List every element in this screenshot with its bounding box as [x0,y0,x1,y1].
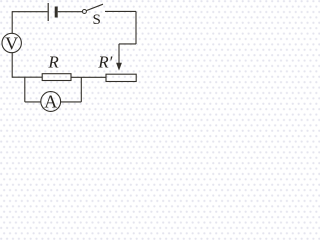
ammeter A: circle [41,92,61,112]
wire: right vertical drop [135,11,137,44]
wire: battery to switch pivot [58,11,82,13]
wire: switch contact to top-right corner [105,10,136,12]
battery cell: long thin plate (left) [47,3,49,21]
wire: top-left horizontal from corner to battery [12,11,47,13]
svg-text:R: R [47,53,59,72]
wire: bottom left to ammeter [25,101,41,103]
voltmeter V: circle [2,33,21,52]
battery cell: short thick plate (right) [55,7,58,18]
switch S: blade (open) [86,4,103,10]
rheostat R' slider arrowhead [116,63,122,71]
svg-text:S: S [93,12,101,28]
wire: resistor R to left junction [12,76,42,78]
svg-text:R′: R′ [97,52,112,71]
svg-text:V: V [5,33,18,53]
wire: voltmeter bottom to middle wire [11,53,13,78]
wire: left junction down to ammeter row [24,77,26,102]
wire: ammeter to right branch [61,101,82,103]
switch S: pivot circle [82,10,86,14]
wire: R' left terminal to resistor R [71,76,106,78]
rheostat R' slider arrow shaft [118,44,120,64]
svg-text:A: A [44,92,57,112]
rheostat R' body rectangle [106,74,136,81]
wire: step left to rheostat slider [119,43,136,45]
resistor R body rectangle [42,74,71,81]
wire: voltmeter branch top vertical [11,11,13,33]
wire: right branch up to middle wire [80,77,82,102]
